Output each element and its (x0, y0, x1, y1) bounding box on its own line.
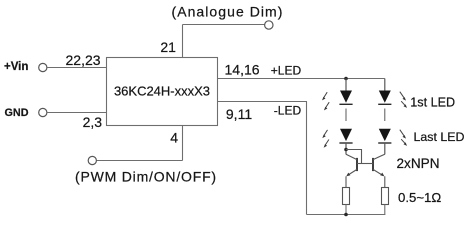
terminal PWM Dim/ON/OFF (88, 156, 96, 164)
svg-text:0.5~1Ω: 0.5~1Ω (398, 190, 441, 205)
svg-text:4: 4 (170, 130, 178, 146)
svg-text:GND: GND (5, 107, 29, 119)
wire collector-base tie of Q1 (346, 150, 362, 164)
wire base rail Q1-Q2 (357, 163, 373, 165)
svg-text:1st LED: 1st LED (410, 95, 455, 109)
LED D4 (Last LED, right string) (378, 129, 391, 143)
svg-text:-LED: -LED (274, 104, 302, 118)
terminal Analogue Dim (265, 21, 273, 29)
wire pin 21 vertical (182, 25, 184, 58)
wire R1 bottom (345, 205, 347, 215)
wire pin 21 horizontal to Analogue Dim terminal (183, 24, 265, 26)
transistor Q2 (right NPN) (373, 154, 385, 176)
svg-text:9,11: 9,11 (226, 106, 252, 122)
wire left string cathode down to Q1 collector (345, 143, 347, 154)
svg-text:14,16: 14,16 (225, 61, 260, 77)
wire +LED from pins 14,16 (218, 78, 385, 80)
svg-text:21: 21 (160, 39, 176, 55)
wire +Vin to pins 22,23 (47, 67, 107, 69)
svg-text:2xNPN: 2xNPN (397, 156, 440, 171)
svg-text:(PWM Dim/ON/OFF): (PWM Dim/ON/OFF) (75, 169, 217, 185)
LED D3 light arrows (400, 92, 407, 108)
svg-text:+LED: +LED (271, 64, 302, 78)
resistor R1 (0.5~1 ohm, left) (343, 188, 350, 205)
svg-text:+Vin: +Vin (4, 61, 28, 73)
wire pin 4 horizontal to PWM terminal (96, 160, 182, 162)
junction collector tie (344, 148, 348, 152)
svg-text:Last LED: Last LED (414, 130, 465, 144)
wire -LED from pins 9,11 (218, 102, 307, 215)
svg-text:36KC24H-xxxX3: 36KC24H-xxxX3 (114, 83, 210, 98)
resistor R2 (0.5~1 ohm, right) (382, 188, 389, 205)
wire Q1 emitter down (345, 176, 347, 187)
wire GND to pins 2,3 (47, 112, 107, 114)
LED D2 light arrows (322, 130, 329, 148)
LED D3 (1st LED, right string) (378, 79, 391, 105)
wire R2 bottom (384, 205, 386, 215)
terminal GND (39, 108, 47, 116)
LED D1 light arrows (322, 92, 329, 110)
LED D1 (1st LED, left string) (339, 79, 352, 105)
wire bottom return (307, 214, 386, 216)
wire dashed right string omitted LEDs (384, 109, 386, 122)
LED D2 (Last LED, left string) (339, 129, 352, 143)
svg-text:2,3: 2,3 (83, 114, 103, 130)
LED D4 light arrows (400, 130, 407, 146)
wire pin 4 vertical (182, 126, 184, 161)
wire Q2 emitter down (384, 176, 386, 187)
junction +LED / left LED string (344, 77, 348, 81)
terminal +Vin (39, 63, 47, 71)
junction bottom return (344, 213, 348, 217)
transistor Q1 (left NPN) (346, 154, 357, 176)
IC U1 36KC24H-xxxX3 body (107, 58, 218, 126)
svg-text:(Analogue Dim): (Analogue Dim) (172, 4, 284, 20)
svg-text:22,23: 22,23 (66, 52, 101, 68)
wire right string cathode down to Q2 collector (384, 143, 386, 154)
wire dashed left string omitted LEDs (345, 109, 347, 122)
